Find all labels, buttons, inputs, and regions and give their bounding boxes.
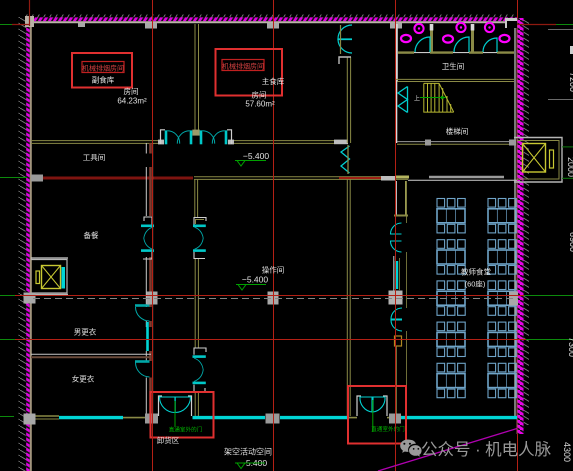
exit door left (in red box) bbox=[159, 396, 192, 427]
dimension ticks right edge bbox=[548, 29, 573, 31]
small clipped glyph top right bbox=[570, 46, 573, 54]
columns at grid intersections bbox=[24, 292, 519, 425]
prep folding door (corridor west) bbox=[141, 217, 154, 259]
svg-text:卫生间: 卫生间 bbox=[442, 61, 465, 71]
left rooms walls bbox=[31, 258, 151, 357]
svg-text:−5.400: −5.400 bbox=[242, 275, 269, 285]
axis vertical 4 bbox=[395, 0, 397, 471]
dashed center line y298.5 bbox=[33, 298, 518, 300]
dining top wall y180 bbox=[408, 179, 517, 181]
kitchen lower folding door bbox=[193, 348, 207, 392]
svg-text:6900: 6900 bbox=[568, 232, 573, 252]
wall y142 below storage rooms bbox=[31, 140, 348, 145]
bottom wall y417 bbox=[33, 414, 517, 424]
watermark bbox=[400, 440, 551, 459]
svg-text:直通室外的门: 直通室外的门 bbox=[169, 426, 203, 434]
svg-text:男更衣: 男更衣 bbox=[74, 327, 97, 337]
axis vertical 3 bbox=[273, 0, 275, 471]
svg-text:架空活动空间: 架空活动空间 bbox=[224, 447, 272, 457]
svg-text:公众号 · 机电人脉: 公众号 · 机电人脉 bbox=[421, 440, 552, 459]
axis horizontal y178 bbox=[0, 177, 27, 179]
svg-text:4300: 4300 bbox=[562, 442, 572, 462]
red annotation box top-left bbox=[72, 53, 132, 88]
bifold door kitchen vestibule x349 y145-173 bbox=[341, 145, 350, 174]
storage east wall x349 with jog bbox=[339, 57, 351, 143]
svg-text:直通室外的门: 直通室外的门 bbox=[371, 425, 405, 433]
axis vertical 2 bbox=[152, 0, 154, 471]
corridor west wall x147 bbox=[146, 143, 153, 417]
red annotation box top-right bbox=[216, 49, 285, 96]
kitchen west wall x196 segments bbox=[195, 179, 199, 416]
svg-text:57.60m²: 57.60m² bbox=[245, 100, 275, 109]
svg-text:备餐: 备餐 bbox=[84, 230, 99, 240]
toilet block bbox=[397, 24, 515, 81]
stair room bbox=[397, 81, 454, 143]
elevator room outline bbox=[31, 260, 67, 294]
svg-text:−5.400: −5.400 bbox=[243, 151, 270, 161]
svg-text:机械排烟房间: 机械排烟房间 bbox=[82, 64, 124, 73]
axis horizontal y417 left stub bbox=[0, 416, 14, 418]
axis vertical 5 bbox=[517, 0, 519, 18]
wall y356 between changing rooms bbox=[31, 353, 151, 355]
corridor window cyan x147 bbox=[146, 322, 149, 351]
toilet fixtures magenta bbox=[401, 23, 510, 43]
exit door right (in red box) bbox=[357, 396, 387, 432]
svg-text:楼梯间: 楼梯间 bbox=[446, 126, 469, 136]
axis horizontal y339 bbox=[0, 339, 15, 341]
exterior wall top (hatched) bbox=[25, 15, 517, 23]
storage partition wall x196 (between rooms) bbox=[195, 24, 199, 133]
dining west wall complex x395-408 bbox=[389, 181, 409, 416]
column blocks under top wall bbox=[25, 16, 402, 29]
bifold door stair west bbox=[398, 87, 408, 113]
svg-text:2000: 2000 bbox=[566, 157, 573, 177]
room labels bbox=[72, 61, 492, 457]
axis vertical 1 bbox=[29, 0, 31, 26]
svg-text:操作间: 操作间 bbox=[262, 265, 285, 275]
svg-text:(60座): (60座) bbox=[465, 279, 486, 289]
kitchen upper folding door bbox=[193, 218, 206, 259]
stall doors cyan bbox=[415, 37, 497, 52]
elevator right bbox=[514, 138, 573, 183]
kitchen east wall x349 lower bbox=[347, 179, 350, 416]
svg-text:卸货区: 卸货区 bbox=[157, 435, 180, 445]
exterior wall left (hatched) bbox=[19, 17, 31, 471]
stair room bottom wall y143 bbox=[397, 140, 516, 146]
big double door into corridor bbox=[161, 130, 232, 145]
top-right corner block bbox=[505, 18, 517, 28]
door 男更衣 bbox=[135, 304, 150, 307]
tool room red wall y178 bbox=[31, 175, 504, 182]
purple diagonal line bbox=[378, 429, 517, 471]
exterior wall right (hatched) bbox=[515, 18, 529, 434]
axis horizontal top bbox=[0, 24, 12, 26]
svg-text:副食库: 副食库 bbox=[92, 75, 115, 85]
dimension texts right edge bbox=[562, 72, 573, 462]
svg-text:机械排烟房间: 机械排烟房间 bbox=[222, 62, 264, 71]
wall y258 above elevator room bbox=[31, 257, 68, 259]
svg-text:女更衣: 女更衣 bbox=[72, 374, 95, 384]
svg-text:房间: 房间 bbox=[252, 90, 267, 100]
svg-text:房间: 房间 bbox=[124, 86, 139, 96]
svg-text:64.23m²: 64.23m² bbox=[117, 97, 147, 106]
red annotation box bottom-right bbox=[348, 386, 406, 444]
svg-text:7300: 7300 bbox=[567, 337, 573, 357]
svg-text:主食库: 主食库 bbox=[262, 76, 285, 86]
axis horizontal y295 bbox=[0, 295, 15, 297]
red annotation box bottom-left bbox=[151, 392, 214, 438]
door 女更衣 bbox=[135, 360, 150, 363]
wall below elevator y294.5 bbox=[31, 293, 68, 295]
dining tables bbox=[437, 199, 516, 398]
svg-text:教师食堂: 教师食堂 bbox=[461, 267, 491, 277]
door at top of vestibule bbox=[338, 25, 352, 54]
svg-text:7200: 7200 bbox=[568, 72, 573, 92]
toilet bottom wall y80 bbox=[396, 78, 514, 80]
elevation marks bbox=[235, 151, 269, 469]
svg-text:上: 上 bbox=[414, 95, 420, 103]
elevator left cab bbox=[36, 266, 65, 289]
svg-text:工具间: 工具间 bbox=[83, 153, 106, 162]
